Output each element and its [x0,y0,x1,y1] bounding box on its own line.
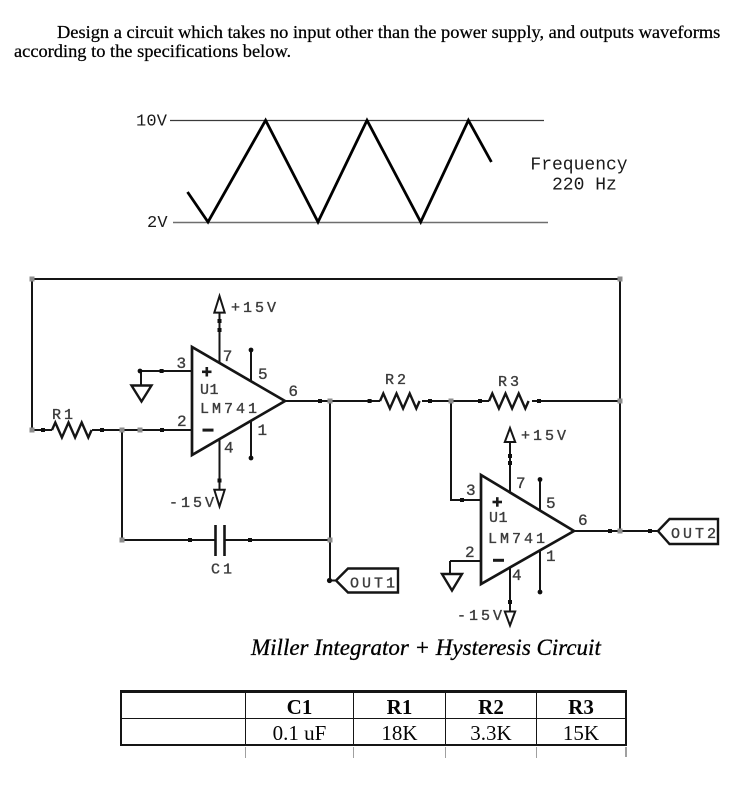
svg-text:1: 1 [546,548,556,566]
svg-text:5: 5 [546,495,556,513]
svg-text:R3: R3 [498,374,522,391]
svg-text:OUT2: OUT2 [671,526,719,543]
svg-text:4: 4 [224,440,234,458]
svg-text:7: 7 [516,475,526,493]
svg-text:6: 6 [288,383,298,401]
svg-text:OUT1: OUT1 [350,576,398,593]
svg-text:R2: R2 [385,372,409,389]
svg-text:3: 3 [466,482,476,500]
svg-text:U1: U1 [200,382,219,399]
svg-text:5: 5 [258,366,268,384]
svg-text:U1: U1 [489,510,508,527]
svg-text:220 Hz: 220 Hz [552,175,617,195]
svg-text:R1: R1 [52,407,76,424]
svg-text:-15V: -15V [457,608,505,625]
svg-text:LM741: LM741 [488,531,548,548]
svg-text:LM741: LM741 [200,401,260,418]
svg-text:Frequency: Frequency [530,155,627,175]
svg-text:10V: 10V [136,113,168,132]
svg-text:4: 4 [512,567,522,585]
svg-text:3: 3 [177,355,187,373]
svg-text:2: 2 [177,413,187,431]
svg-text:-15V: -15V [169,495,217,512]
svg-text:2V: 2V [147,214,168,233]
svg-text:6: 6 [578,512,588,530]
svg-text:2: 2 [465,544,475,562]
svg-text:7: 7 [223,348,233,366]
svg-text:1: 1 [258,422,268,440]
svg-text:C1: C1 [211,562,235,579]
svg-text:+15V: +15V [231,300,279,317]
svg-text:+15V: +15V [521,428,569,445]
